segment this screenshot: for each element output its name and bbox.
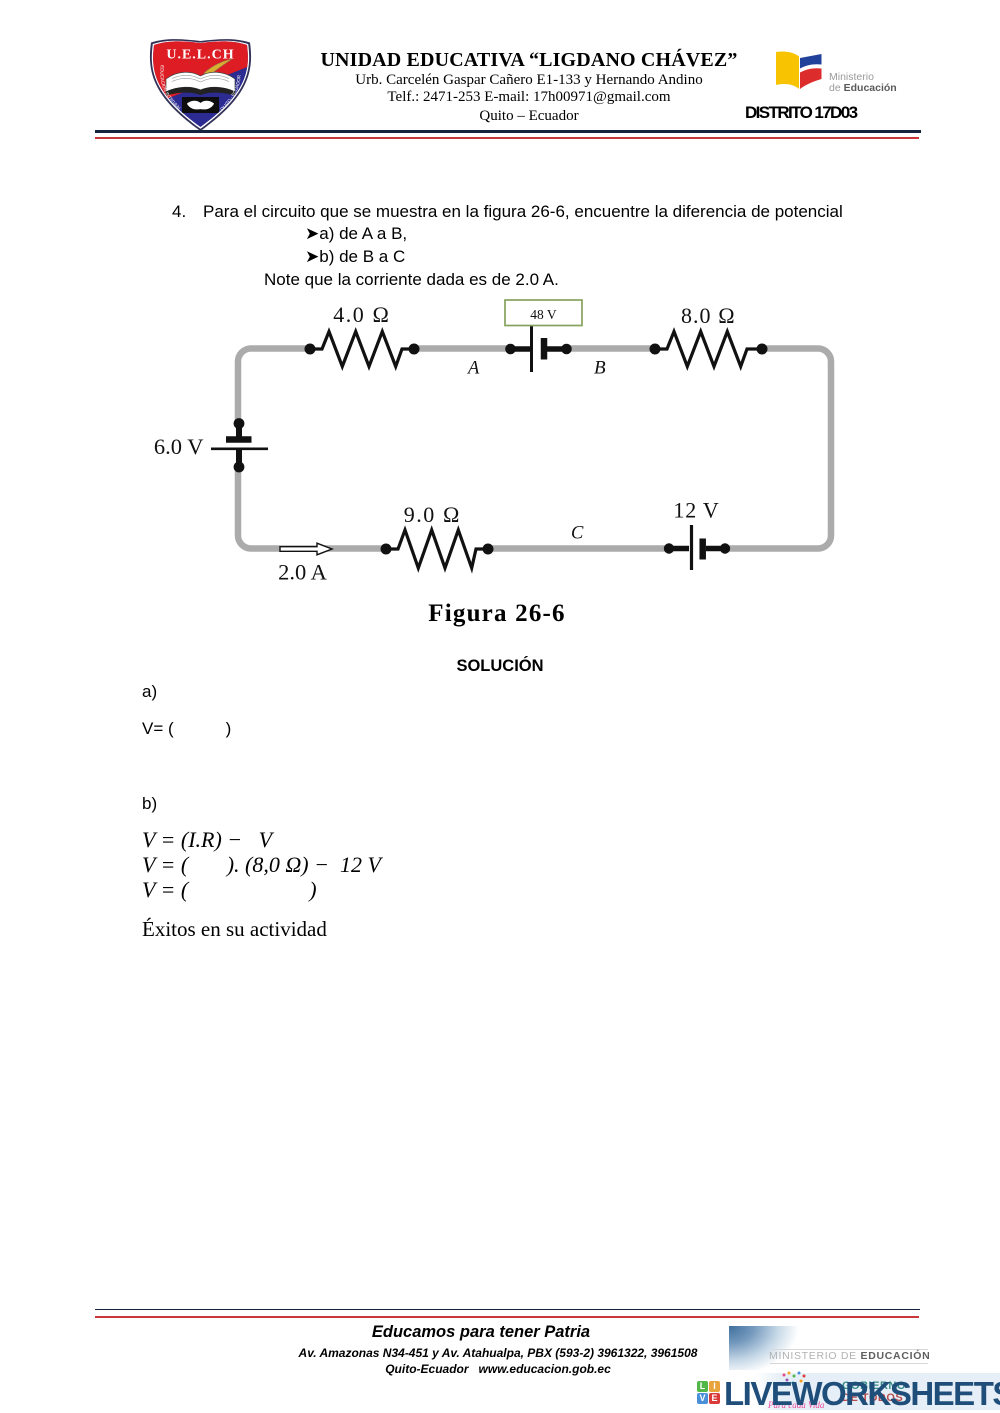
node dot V2 right bbox=[561, 344, 572, 355]
node dot V1 top bbox=[234, 418, 245, 429]
ministerio banner bbox=[729, 1326, 929, 1370]
svg-text:2.0 A: 2.0 A bbox=[278, 560, 328, 585]
watermark gobierno block bbox=[842, 1380, 932, 1406]
wire gap for battery V3 (bottom 12V) bbox=[666, 543, 728, 554]
node dot V3 left bbox=[664, 543, 674, 553]
battery V3 12V bbox=[669, 525, 725, 570]
Figura 26-6 bbox=[347, 600, 647, 628]
handshake block bbox=[182, 97, 219, 113]
curved side mottos bbox=[160, 65, 179, 110]
label 2.0 A bbox=[278, 560, 328, 585]
node dot V1 bottom bbox=[234, 462, 245, 473]
DISTRITO 17D03 bbox=[745, 103, 856, 123]
ministerio logo top-right bbox=[774, 49, 904, 94]
node label C bbox=[571, 524, 584, 544]
label 4.0 ohm bbox=[333, 302, 390, 327]
wire main loop bbox=[238, 349, 831, 549]
wire gap for battery V2 (top 48V) bbox=[507, 344, 569, 354]
node dot R3 right bbox=[483, 544, 494, 555]
Exitos bbox=[142, 917, 327, 942]
svg-text:8.0 Ω: 8.0 Ω bbox=[681, 303, 736, 328]
node dot V3 right bbox=[720, 543, 730, 553]
svg-text:9.0 Ω: 9.0 Ω bbox=[404, 502, 461, 527]
node dot R2 right bbox=[757, 344, 768, 355]
pale blue backdrop behind liveworksheets bbox=[756, 1373, 1000, 1410]
banner bottom rule bbox=[770, 1363, 928, 1364]
liveworksheets logo bbox=[697, 1381, 721, 1405]
watermark confetti behind logo bbox=[781, 1371, 807, 1387]
node dot R1 left bbox=[305, 344, 316, 355]
open book bbox=[166, 72, 235, 92]
label 9.0 ohm bbox=[404, 502, 461, 527]
node dot V2 left bbox=[505, 344, 516, 355]
node dot R2 left bbox=[650, 344, 661, 355]
svg-text:B: B bbox=[594, 358, 606, 379]
wire gap for resistor R3 bbox=[387, 544, 487, 554]
svg-text:6.0 V: 6.0 V bbox=[154, 434, 204, 459]
battery V1 6.0V bbox=[211, 424, 268, 466]
node label B bbox=[594, 358, 606, 379]
SOLUCION bbox=[350, 657, 650, 676]
svg-text:U.E.L.CH: U.E.L.CH bbox=[166, 48, 234, 63]
school shield logo bbox=[146, 37, 255, 132]
math lines bbox=[142, 827, 272, 853]
resistor R3 9.0 ohm bbox=[386, 530, 488, 568]
svg-text:4.0 Ω: 4.0 Ω bbox=[333, 302, 390, 327]
watermark script bbox=[768, 1400, 824, 1410]
wire gap for battery V1 (left) bbox=[233, 424, 244, 466]
a) bbox=[142, 682, 157, 702]
node dot R1 right bbox=[409, 344, 420, 355]
quill bbox=[204, 59, 232, 77]
svg-text:A: A bbox=[466, 359, 480, 379]
resistor R1 4.0 ohm bbox=[310, 332, 414, 367]
label 8.0 ohm bbox=[681, 303, 736, 328]
label 12 V bbox=[673, 498, 719, 523]
node label A bbox=[466, 359, 480, 379]
b) bbox=[142, 794, 157, 814]
label 6.0 V bbox=[154, 434, 204, 459]
svg-text:48 V: 48 V bbox=[530, 307, 557, 322]
header double rule bbox=[95, 130, 921, 133]
header centred text bbox=[229, 50, 829, 70]
wire gap for resistor R2 bbox=[656, 344, 761, 354]
svg-text:C: C bbox=[571, 524, 584, 544]
wire gap for resistor R1 bbox=[311, 344, 413, 354]
node dot R3 left bbox=[381, 544, 392, 555]
svg-text:de Educación: de Educación bbox=[829, 82, 897, 94]
label box 48 V bbox=[505, 300, 582, 326]
battery V2 48V bbox=[511, 325, 567, 372]
svg-text:12 V: 12 V bbox=[673, 498, 719, 523]
resistor R2 8.0 ohm bbox=[655, 332, 762, 367]
current arrow 2.0 A bbox=[280, 543, 332, 555]
